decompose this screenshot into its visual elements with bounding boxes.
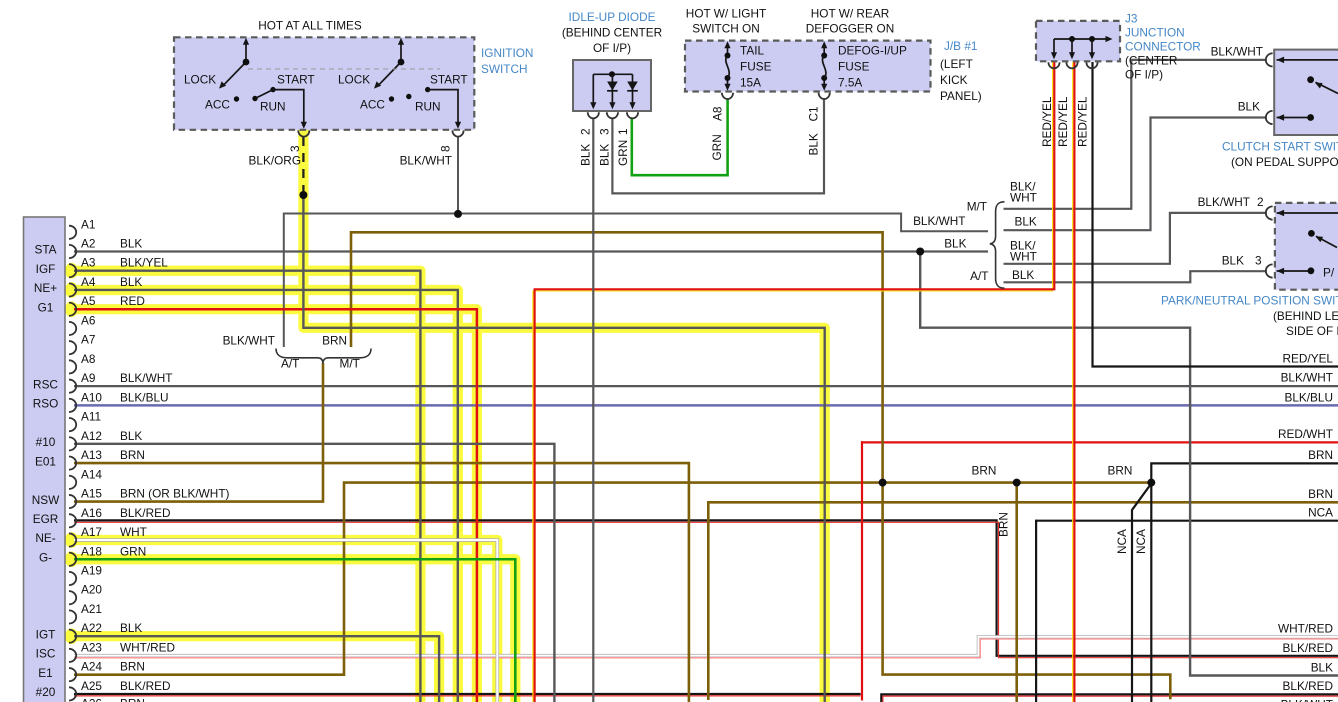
svg-text:A2: A2 [81, 237, 95, 251]
svg-text:A1: A1 [81, 217, 95, 231]
svg-text:BLK/WHT: BLK/WHT [1198, 195, 1250, 209]
svg-text:M/T: M/T [340, 357, 360, 371]
svg-text:A23: A23 [81, 640, 102, 654]
svg-text:BLK/WHT: BLK/WHT [223, 334, 275, 348]
svg-text:J3: J3 [1125, 12, 1138, 26]
svg-text:NCA: NCA [1115, 529, 1129, 554]
svg-text:BLK: BLK [1012, 268, 1034, 282]
svg-text:P/: P/ [1323, 266, 1335, 280]
svg-text:DEFOGGER ON: DEFOGGER ON [806, 22, 894, 36]
svg-text:BRN: BRN [1308, 487, 1333, 501]
svg-text:IGNITION: IGNITION [481, 46, 533, 60]
svg-text:A8: A8 [81, 352, 96, 366]
svg-text:2: 2 [579, 128, 593, 135]
svg-text:BLK: BLK [1238, 100, 1260, 114]
svg-text:PANEL): PANEL) [940, 89, 982, 103]
svg-text:2: 2 [1257, 195, 1264, 209]
svg-text:A17: A17 [81, 525, 102, 539]
svg-text:A/T: A/T [970, 269, 988, 283]
svg-text:OF I/P): OF I/P) [593, 41, 631, 55]
svg-text:NE-: NE- [35, 531, 55, 545]
svg-text:IDLE-UP DIODE: IDLE-UP DIODE [569, 10, 656, 24]
svg-text:G-: G- [39, 550, 52, 564]
svg-text:A22: A22 [81, 621, 102, 635]
svg-text:GRN: GRN [710, 134, 724, 160]
svg-text:3: 3 [288, 145, 302, 152]
svg-text:BRN: BRN [120, 660, 145, 674]
svg-text:BLK: BLK [944, 237, 966, 251]
svg-text:M/T: M/T [967, 200, 987, 214]
svg-text:A13: A13 [81, 448, 102, 462]
svg-text:RED/YEL: RED/YEL [1040, 96, 1054, 147]
svg-text:(CENTER: (CENTER [1125, 54, 1177, 68]
svg-text:TAIL: TAIL [740, 44, 764, 58]
svg-text:BLK/ORG: BLK/ORG [249, 154, 301, 168]
svg-text:PARK/NEUTRAL POSITION SWITCH: PARK/NEUTRAL POSITION SWITCH [1161, 294, 1338, 308]
svg-text:BLK/WHT: BLK/WHT [120, 371, 172, 385]
svg-text:GRN: GRN [616, 140, 630, 166]
svg-text:IGF: IGF [36, 262, 56, 276]
svg-text:BLK/RED: BLK/RED [1283, 679, 1333, 693]
svg-text:BLK: BLK [120, 429, 142, 443]
svg-text:RSC: RSC [33, 377, 58, 391]
svg-text:BLK: BLK [120, 275, 142, 289]
svg-text:A14: A14 [81, 467, 102, 481]
svg-text:BRN: BRN [120, 448, 145, 462]
svg-text:IGT: IGT [36, 627, 56, 641]
svg-text:NCA: NCA [1134, 529, 1148, 554]
svg-text:A8: A8 [711, 106, 725, 121]
svg-text:LOCK: LOCK [338, 73, 370, 87]
svg-text:1: 1 [616, 128, 630, 135]
svg-text:8: 8 [439, 145, 453, 152]
svg-text:BRN: BRN [972, 464, 997, 478]
svg-text:BLK: BLK [120, 237, 142, 251]
svg-text:BLK/WHT: BLK/WHT [1211, 45, 1263, 59]
svg-text:WHT/RED: WHT/RED [1278, 622, 1333, 636]
svg-text:A15: A15 [81, 487, 102, 501]
svg-text:A25: A25 [81, 679, 102, 693]
svg-text:A7: A7 [81, 333, 95, 347]
svg-text:A11: A11 [81, 410, 101, 424]
svg-text:E1: E1 [38, 666, 52, 680]
svg-text:A9: A9 [81, 371, 95, 385]
svg-text:A6: A6 [81, 313, 96, 327]
svg-text:A/T: A/T [281, 357, 299, 371]
svg-text:STA: STA [34, 243, 56, 257]
svg-text:3: 3 [598, 128, 612, 135]
svg-text:BLK/YEL: BLK/YEL [120, 256, 168, 270]
svg-text:BRN: BRN [1308, 448, 1333, 462]
svg-text:CONNECTOR: CONNECTOR [1125, 40, 1201, 54]
svg-text:JUNCTION: JUNCTION [1125, 26, 1185, 40]
svg-text:DEFOG-I/UP: DEFOG-I/UP [838, 44, 907, 58]
svg-text:BLK: BLK [1311, 660, 1333, 674]
svg-text:BLK: BLK [807, 133, 821, 155]
svg-text:BRN (OR BLK/WHT): BRN (OR BLK/WHT) [120, 487, 230, 501]
svg-text:C1: C1 [807, 106, 821, 121]
svg-text:RED/YEL: RED/YEL [1076, 96, 1090, 147]
svg-text:G1: G1 [38, 300, 54, 314]
svg-text:BLK: BLK [1015, 215, 1037, 229]
svg-text:BLK/WHT: BLK/WHT [400, 154, 452, 168]
svg-text:WHT: WHT [120, 525, 147, 539]
svg-text:A24: A24 [81, 660, 102, 674]
svg-text:BLK/RED: BLK/RED [120, 679, 170, 693]
svg-text:EGR: EGR [33, 512, 59, 526]
svg-text:(BEHIND LEFT: (BEHIND LEFT [1273, 309, 1338, 323]
svg-text:BLK/BLU: BLK/BLU [1284, 391, 1333, 405]
svg-text:START: START [277, 73, 315, 87]
svg-text:RED/WHT: RED/WHT [1278, 427, 1333, 441]
svg-text:BLK/WHT: BLK/WHT [913, 214, 965, 228]
svg-text:A16: A16 [81, 506, 102, 520]
svg-text:BLK/BLU: BLK/BLU [120, 390, 169, 404]
svg-text:NCA: NCA [1308, 506, 1333, 520]
svg-text:LOCK: LOCK [184, 73, 216, 87]
svg-text:NE+: NE+ [34, 281, 57, 295]
svg-text:BRN: BRN [1108, 464, 1133, 478]
svg-text:SWITCH: SWITCH [481, 62, 528, 76]
svg-text:#20: #20 [36, 685, 56, 699]
svg-text:NSW: NSW [32, 493, 60, 507]
svg-text:RSO: RSO [33, 397, 59, 411]
svg-text:3: 3 [1255, 254, 1262, 268]
svg-text:A4: A4 [81, 275, 96, 289]
svg-text:(ON PEDAL SUPPORT): (ON PEDAL SUPPORT) [1231, 155, 1338, 169]
svg-text:A10: A10 [81, 390, 102, 404]
svg-text:SWITCH ON: SWITCH ON [692, 22, 760, 36]
svg-text:FUSE: FUSE [838, 60, 870, 74]
svg-text:A20: A20 [81, 583, 102, 597]
svg-text:A21: A21 [81, 602, 102, 616]
svg-text:RED: RED [120, 294, 145, 308]
svg-text:BRN: BRN [120, 697, 145, 702]
svg-text:BLK/RED: BLK/RED [1283, 641, 1333, 655]
svg-text:WHT/RED: WHT/RED [120, 640, 175, 654]
svg-text:BLK: BLK [1222, 254, 1244, 268]
svg-text:7.5A: 7.5A [838, 76, 862, 90]
svg-text:WHT: WHT [1010, 191, 1037, 205]
svg-text:A5: A5 [81, 294, 96, 308]
svg-text:GRN: GRN [120, 544, 146, 558]
svg-text:BLK: BLK [579, 144, 593, 166]
svg-text:(LEFT: (LEFT [940, 57, 973, 71]
svg-text:BRN: BRN [997, 512, 1011, 537]
svg-text:J/B #1: J/B #1 [944, 39, 977, 53]
svg-text:(BEHIND CENTER: (BEHIND CENTER [562, 26, 662, 40]
svg-text:A12: A12 [81, 429, 102, 443]
svg-text:#10: #10 [36, 435, 56, 449]
svg-text:A18: A18 [81, 544, 102, 558]
svg-text:RED/YEL: RED/YEL [1283, 351, 1334, 365]
svg-text:RED/YEL: RED/YEL [1056, 96, 1070, 147]
svg-text:BLK/RED: BLK/RED [120, 506, 170, 520]
svg-text:KICK: KICK [940, 73, 968, 87]
svg-text:BLK/WHT: BLK/WHT [1281, 371, 1333, 385]
svg-text:ACC: ACC [205, 98, 230, 112]
svg-text:A26: A26 [81, 697, 102, 702]
svg-text:HOT AT ALL TIMES: HOT AT ALL TIMES [258, 19, 362, 33]
svg-text:BLK: BLK [120, 621, 142, 635]
svg-text:SIDE OF ENG): SIDE OF ENG) [1286, 324, 1338, 338]
svg-text:HOT W/ REAR: HOT W/ REAR [811, 7, 889, 21]
svg-text:BRN: BRN [322, 334, 347, 348]
svg-text:A19: A19 [81, 563, 102, 577]
svg-text:RUN: RUN [415, 100, 441, 114]
svg-text:CLUTCH START SWITCH: CLUTCH START SWITCH [1222, 140, 1338, 154]
svg-text:A3: A3 [81, 256, 96, 270]
svg-text:WHT: WHT [1010, 250, 1037, 264]
svg-text:FUSE: FUSE [740, 60, 772, 74]
svg-text:OF I/P): OF I/P) [1125, 68, 1163, 82]
svg-text:BLK/WHT: BLK/WHT [1281, 697, 1333, 702]
svg-text:ISC: ISC [36, 647, 56, 661]
svg-text:RUN: RUN [260, 100, 286, 114]
svg-text:15A: 15A [740, 76, 761, 90]
svg-text:HOT W/ LIGHT: HOT W/ LIGHT [686, 7, 766, 21]
svg-text:START: START [430, 73, 468, 87]
svg-text:BLK: BLK [598, 144, 612, 166]
svg-text:E01: E01 [35, 454, 56, 468]
svg-text:ACC: ACC [360, 98, 385, 112]
